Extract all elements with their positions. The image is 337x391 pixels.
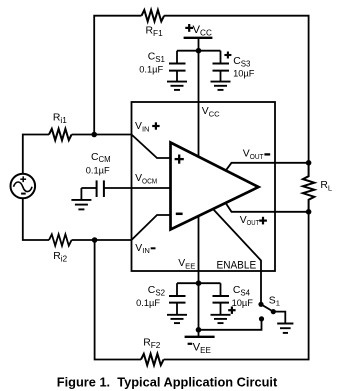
- ground for CCM: [71, 188, 91, 209]
- svg-text:CS3: CS3: [233, 56, 251, 68]
- svg-text:VEE: VEE: [193, 341, 211, 354]
- capacitor CS3: [213, 51, 230, 82]
- capacitor CS1: [169, 51, 186, 82]
- switch S1 arm: [261, 304, 273, 311]
- svg-text:VOCM: VOCM: [135, 173, 157, 185]
- svg-text:ENABLE: ENABLE: [217, 260, 257, 272]
- svg-text:Figure 1. Typical Application: Figure 1. Typical Application Circuit: [57, 374, 278, 389]
- svg-text:0.1µF: 0.1µF: [136, 298, 160, 308]
- minus mark for VIN-: [151, 247, 156, 249]
- minus mark of -VEE: [188, 343, 193, 345]
- junction node at VOUT+: [306, 209, 312, 215]
- source sine wave: [14, 182, 33, 192]
- op-amp - input mark: [176, 213, 183, 216]
- svg-text:0.1µF: 0.1µF: [139, 65, 163, 75]
- svg-text:10µF: 10µF: [233, 68, 255, 78]
- label +VCC plus mark: [185, 24, 193, 32]
- wire: VIN+ input (source to amp + input): [23, 135, 49, 174]
- wire: VIN- input (source bottom to Ri2): [23, 198, 49, 240]
- wire: VEE stem from amp bottom edge to -VEE bar: [198, 216, 200, 337]
- junction node at VOUT-: [306, 160, 312, 166]
- svg-text:VOUT: VOUT: [240, 215, 260, 227]
- wire: switch throw to ground: [273, 312, 285, 324]
- resistor Ri1: [49, 129, 72, 140]
- wire: Ri2 to box VIN- pin and diagonal to amp - input: [72, 215, 171, 240]
- wire: top feedback left segment (VIN+ node up to RF1): [94, 16, 141, 135]
- plus mark for VIN+: [152, 122, 159, 129]
- ground for S1: [277, 324, 293, 333]
- minus mark for VOUT-: [264, 153, 270, 155]
- source - polarity mark: [21, 193, 26, 195]
- ground for CS4: [211, 315, 231, 323]
- wire: ENABLE from amp bottom edge down to switch: [213, 209, 261, 304]
- label plus mark for CS3: [224, 52, 231, 59]
- svg-text:VEE: VEE: [178, 258, 195, 270]
- svg-text:Ri1: Ri1: [53, 113, 67, 125]
- junction node at -VEE: [196, 327, 202, 333]
- svg-text:RF1: RF1: [146, 26, 164, 38]
- resistor RF2: [141, 354, 164, 365]
- wire: VOUT- output tap to right rail: [226, 163, 309, 170]
- source + polarity mark: [20, 176, 26, 182]
- junction node at VEE rail: [196, 280, 202, 286]
- ground for CS3: [211, 82, 231, 90]
- capacitor CCM: [97, 180, 104, 197]
- wire: CCM to amp VOCM input: [104, 187, 171, 189]
- capacitor CS2: [169, 283, 186, 315]
- svg-text:VCC: VCC: [202, 106, 220, 118]
- wire: top feedback right segment (RF1 to VOUT- node): [164, 16, 309, 163]
- resistor RL: [303, 163, 314, 212]
- svg-text:VCC: VCC: [193, 24, 212, 37]
- op-amp triangle: [171, 143, 259, 230]
- wire: bottom feedback right segment (RF2 to VOUT+ node): [164, 212, 309, 360]
- svg-text:Ri2: Ri2: [53, 251, 67, 263]
- wire: VOUT+ output tap to right rail: [226, 204, 309, 212]
- wire: switch lower throw to -VEE node: [199, 319, 262, 330]
- switch S1 lower throw node: [259, 316, 264, 321]
- plus mark for CS4: [228, 307, 235, 314]
- wire: VCC stem from +VCC bar through box to amp top edge: [198, 38, 200, 158]
- wire: Ri1 to box VIN+ pin and diagonal to amp + input: [72, 135, 171, 159]
- capacitor CS4: [213, 283, 230, 315]
- ground for CS1: [167, 82, 187, 90]
- svg-text:CS1: CS1: [148, 52, 165, 64]
- svg-text:CS2: CS2: [148, 285, 165, 297]
- plus mark for VOUT+: [259, 217, 267, 225]
- amplifier box U1: [132, 102, 276, 271]
- junction node at VIN-: [92, 237, 98, 243]
- wire: bottom bypass rail: [177, 282, 221, 284]
- svg-text:VIN: VIN: [135, 243, 150, 255]
- ground for CS2: [167, 315, 187, 323]
- junction node at VIN+: [91, 132, 97, 138]
- wire: VOCM line with capacitor CCM: [81, 187, 96, 189]
- power +VCC bar: [184, 37, 213, 39]
- resistor Ri2: [49, 234, 72, 245]
- resistor RF1: [142, 10, 165, 21]
- source VS circle: [10, 174, 35, 199]
- svg-text:VOUT: VOUT: [243, 149, 264, 161]
- svg-text:CS4: CS4: [233, 285, 251, 297]
- svg-text:RF2: RF2: [143, 338, 161, 350]
- wire: top bypass rail: [177, 50, 221, 52]
- svg-text:RL: RL: [320, 180, 332, 192]
- op-amp + input mark: [175, 155, 184, 164]
- switch S1 throw node: [271, 309, 276, 314]
- wire: bottom feedback left segment (VIN- node down to RF2): [95, 240, 141, 360]
- switch S1 pole node: [258, 302, 263, 307]
- junction node at +VCC rail: [196, 48, 202, 54]
- svg-text:VIN: VIN: [135, 121, 150, 133]
- svg-text:S1: S1: [269, 295, 280, 307]
- svg-text:0.1µF: 0.1µF: [86, 165, 110, 175]
- power -VEE bar: [185, 336, 215, 338]
- svg-text:CCM: CCM: [91, 152, 111, 164]
- svg-text:10µF: 10µF: [232, 298, 254, 308]
